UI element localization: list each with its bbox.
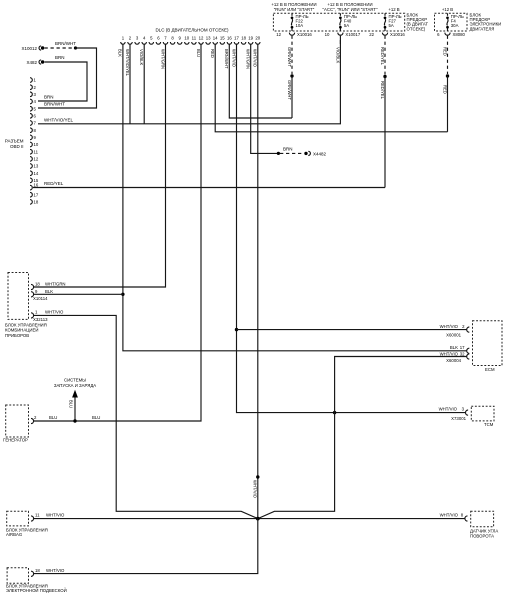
svg-text:BLK: BLK <box>450 345 458 350</box>
svg-text:AIRBAG: AIRBAG <box>6 532 23 537</box>
svg-text:X73001: X73001 <box>451 416 466 421</box>
svg-text:WHT/VIO: WHT/VIO <box>46 568 65 573</box>
svg-text:BRN: BRN <box>55 55 65 60</box>
airbag control unit box <box>6 511 48 537</box>
svg-text:30A: 30A <box>451 23 459 28</box>
OBD II pin 10 <box>30 142 32 147</box>
TCM box <box>471 406 494 427</box>
svg-text:WHT/VIO: WHT/VIO <box>231 49 236 68</box>
svg-text:VIO/BLK: VIO/BLK <box>139 49 144 65</box>
svg-text:WHT/VIO: WHT/VIO <box>440 324 459 329</box>
svg-text:X10017: X10017 <box>345 32 360 37</box>
svg-text:ЭЛЕКТРОННОЙ ПОДВЕСКОЙ: ЭЛЕКТРОННОЙ ПОДВЕСКОЙ <box>6 588 67 593</box>
svg-text:17: 17 <box>234 35 239 40</box>
DLC pin 3 <box>135 42 139 44</box>
OBD II pin 6 <box>30 114 32 119</box>
svg-text:WHT/GRN: WHT/GRN <box>160 49 165 69</box>
svg-text:16: 16 <box>227 35 232 40</box>
steering angle sensor box <box>470 511 498 538</box>
steering angle sensor pin 8 <box>440 513 468 522</box>
ECM pin 17 BLK <box>450 345 469 353</box>
fuse box ЭЛЕКТРОНИКИ ДВИГАТЕЛЯ <box>435 12 502 31</box>
svg-text:20: 20 <box>255 35 260 40</box>
svg-text:+12 В: +12 В <box>388 7 399 12</box>
svg-text:15: 15 <box>220 35 225 40</box>
svg-text:WHT/VIO: WHT/VIO <box>46 513 65 518</box>
svg-text:11: 11 <box>35 513 40 518</box>
DLC pin 6 <box>156 42 160 44</box>
DLC pin 12 <box>199 42 203 44</box>
svg-text:+12 В: +12 В <box>442 7 453 12</box>
svg-text:OBD II: OBD II <box>10 144 24 149</box>
svg-text:WHT/VIO: WHT/VIO <box>253 49 258 68</box>
svg-text:X4482: X4482 <box>313 151 327 156</box>
fuse F22 10A <box>291 13 309 31</box>
wire WHT/VIO DLC pin 16 to TCM pin 3 <box>231 44 465 412</box>
svg-text:X10016: X10016 <box>390 32 405 37</box>
svg-text:WHT/VIO: WHT/VIO <box>252 480 257 499</box>
svg-text:10: 10 <box>184 35 189 40</box>
svg-text:BRN: BRN <box>283 146 293 151</box>
wire BRN X482 to OBD pin 4 <box>38 62 87 101</box>
wire WHT/VIO/YEL DLC pin 2 <box>125 44 130 124</box>
svg-text:10: 10 <box>325 32 330 37</box>
wire VIO/BLK from fuse F40 <box>336 36 341 64</box>
OBD II pin 3 <box>30 92 32 97</box>
OBD II pin 4 <box>30 99 32 104</box>
svg-text:X60004: X60004 <box>446 358 461 363</box>
svg-text:19: 19 <box>248 35 253 40</box>
OBD II pin 7 <box>30 121 32 126</box>
DLC pin 2 <box>128 42 132 44</box>
+12V RUN/START header F22 <box>271 2 316 12</box>
pin 12 connector X10016 <box>276 32 312 37</box>
connector OBD II (РАЗЪЕМ OBD II) <box>5 78 39 205</box>
svg-text:18: 18 <box>241 35 246 40</box>
wire RED/YEL OBD pin 16 to fuse F27 <box>33 181 385 188</box>
svg-text:BLU: BLU <box>196 49 201 57</box>
OBD II pin 17 <box>30 192 32 197</box>
svg-text:WHT/VIO: WHT/VIO <box>440 351 459 356</box>
splice dot X4482 branch <box>277 152 280 155</box>
svg-text:13: 13 <box>34 164 39 169</box>
svg-text:16: 16 <box>34 183 39 188</box>
svg-text:BRN/WHT: BRN/WHT <box>224 49 229 69</box>
svg-text:VIO/BLK: VIO/BLK <box>336 47 341 63</box>
wire WHT/VIO airbag pin 11 to steering angle sensor pin 8 <box>34 518 465 520</box>
DLC pin 20 <box>256 42 260 44</box>
OBD II pin 14 <box>30 171 32 176</box>
wire BLU DLC pin 12 to generator <box>34 44 201 421</box>
OBD II pin 8 <box>30 128 32 133</box>
svg-text:BLU: BLU <box>92 415 100 420</box>
svg-text:ECM: ECM <box>485 367 495 372</box>
svg-text:11: 11 <box>192 35 197 40</box>
DLC pin 14 <box>213 42 217 44</box>
svg-text:WHT/VIO/YEL: WHT/VIO/YEL <box>125 49 130 77</box>
wire WHT/VIO suspension pin 18 to main junction <box>34 519 258 574</box>
wire BLK cluster pin 9 to junction <box>34 293 123 295</box>
svg-text:DLC (В ДВИГАТЕЛЬНОМ ОТСЕКЕ): DLC (В ДВИГАТЕЛЬНОМ ОТСЕКЕ) <box>155 28 229 33</box>
svg-text:22: 22 <box>369 32 374 37</box>
svg-text:WHT/GRN: WHT/GRN <box>246 49 251 69</box>
svg-text:BLU: BLU <box>49 415 57 420</box>
svg-text:14: 14 <box>213 35 218 40</box>
svg-text:ДВИГАТЕЛЯ: ДВИГАТЕЛЯ <box>470 26 495 31</box>
OBD II pin 13 <box>30 164 32 169</box>
wire WHT/VIO cluster pin 1 to main junction <box>34 315 258 518</box>
svg-text:RED/YEL: RED/YEL <box>44 181 64 186</box>
splice arrow to starting and charging systems <box>54 377 96 422</box>
OBD II pin 11 <box>30 149 32 154</box>
wire WHT/GRN DLC pin 18 to X4482 <box>246 44 278 153</box>
svg-text:WHT/VIO/YEL: WHT/VIO/YEL <box>44 117 74 122</box>
svg-text:12: 12 <box>199 35 204 40</box>
svg-text:10: 10 <box>34 142 39 147</box>
fuse box (В ДВИГАТ ОТСЕКЕ) <box>273 12 428 31</box>
pin 6 connector X4000 <box>437 32 465 37</box>
suspension pin 18 <box>31 568 65 577</box>
DLC pin 11 <box>192 42 196 44</box>
svg-text:СИСТЕМЫ: СИСТЕМЫ <box>64 377 86 382</box>
svg-text:X10114: X10114 <box>33 296 48 301</box>
DLC pin 18 <box>241 42 245 44</box>
wire RED / RED/YEL from fuse F27 to OBD pin 16 <box>380 36 386 188</box>
generator pin 2 <box>31 415 100 424</box>
wire WHT/VIO DLC pin 19 to main junction <box>252 44 259 518</box>
OBD II pin 1 <box>30 78 32 83</box>
svg-text:BRN/WHT: BRN/WHT <box>55 41 76 46</box>
svg-text:X8080: X8080 <box>453 32 466 37</box>
OBD II pin 5 <box>30 106 32 111</box>
svg-text:13: 13 <box>206 35 211 40</box>
wire WHT/VIO ECM pin 32 to main junction <box>258 357 467 519</box>
cluster pin 9 BLK connector X10114 <box>31 289 53 301</box>
svg-text:BRN/WHT: BRN/WHT <box>44 102 65 107</box>
svg-text:14: 14 <box>34 171 39 176</box>
svg-text:18: 18 <box>34 200 39 205</box>
svg-text:ПОВОРОТА: ПОВОРОТА <box>470 534 494 539</box>
DLC pin 15 <box>220 42 224 44</box>
fuse F40 5A <box>339 13 357 31</box>
wire BRN/WHT X10012 to OBD pin 5 <box>38 48 97 108</box>
svg-text:BLU: BLU <box>68 400 73 408</box>
svg-text:КОМБИНАЦИЕЙ: КОМБИНАЦИЕЙ <box>5 328 38 333</box>
wire GRN / GRN/WHT from fuse F22 to DLC pin 15 <box>287 36 293 118</box>
svg-text:X60001: X60001 <box>446 332 461 337</box>
generator box <box>3 405 29 443</box>
svg-text:10A: 10A <box>296 23 304 28</box>
DLC pin 7 <box>163 42 167 44</box>
svg-text:5A: 5A <box>389 23 394 28</box>
svg-text:"RUN" ИЛИ "START": "RUN" ИЛИ "START" <box>274 7 315 12</box>
wire RED from fuse F4 to DLC pin 14 <box>443 36 449 132</box>
wire BLK DLC pin 1 to ECM pin 17 <box>118 44 467 351</box>
connector X10012 <box>21 41 77 51</box>
svg-text:18: 18 <box>35 568 40 573</box>
fuse F4 30A <box>446 13 464 31</box>
OBD II pin 9 <box>30 135 32 140</box>
OBD II pin 18 <box>30 200 32 205</box>
svg-text:WHT/VIO: WHT/VIO <box>45 310 64 315</box>
svg-text:WHT/VIO: WHT/VIO <box>440 513 459 518</box>
svg-text:18: 18 <box>35 281 40 286</box>
DLC pin 17 <box>234 42 238 44</box>
svg-text:5A: 5A <box>344 23 349 28</box>
+12V ACC/RUN/START header F40 <box>323 2 378 12</box>
DLC pin 4 <box>142 42 146 44</box>
instrument cluster control unit box <box>5 273 47 338</box>
ECM pin 2 connector X60001 <box>440 324 470 337</box>
svg-text:RED: RED <box>210 49 215 58</box>
airbag pin 11 <box>31 513 65 522</box>
svg-text:ОТСЕКЕ): ОТСЕКЕ) <box>407 26 426 31</box>
pin 10 connector X10017 <box>325 32 361 37</box>
cluster pin 18 WHT/GRN <box>31 281 66 289</box>
svg-text:BRN: BRN <box>44 95 54 100</box>
wire VIO/BLK DLC pin 4 <box>139 44 144 124</box>
svg-text:17: 17 <box>34 192 39 197</box>
svg-text:WHT/VIO: WHT/VIO <box>439 407 458 412</box>
OBD II pin 16 <box>30 185 32 190</box>
svg-text:32: 32 <box>460 351 465 356</box>
DLC pin 19 <box>249 42 253 44</box>
svg-text:BLK: BLK <box>118 49 123 57</box>
cluster pin 1 WHT/VIO connector X32113 <box>31 310 64 322</box>
svg-text:X10016: X10016 <box>297 32 312 37</box>
junction dot TCM line and ECM pin 32 line <box>333 411 336 414</box>
OBD II pin 2 <box>30 85 32 90</box>
wire WHT/VIO/YEL OBD pin 7 to fuse F40 <box>38 40 340 124</box>
svg-text:11: 11 <box>34 149 39 154</box>
main junction dot WHT/VIO bus <box>256 517 260 521</box>
svg-text:12: 12 <box>276 32 281 37</box>
svg-text:X482: X482 <box>26 60 37 65</box>
wire WHT/GRN DLC pin 7 to cluster pin 18 <box>34 44 166 287</box>
ECM pin 32 connector X60004 <box>440 351 470 362</box>
svg-text:12: 12 <box>34 157 39 162</box>
svg-text:X32113: X32113 <box>33 317 48 322</box>
svg-text:ЗАПУСКА И ЗАРЯДА: ЗАПУСКА И ЗАРЯДА <box>54 383 96 388</box>
fuse F27 5A <box>384 13 402 31</box>
DLC pin 5 <box>149 42 153 44</box>
DLC pin 9 <box>178 42 182 44</box>
svg-text:ГЕНЕРАТОР: ГЕНЕРАТОР <box>3 438 28 443</box>
ECM box <box>473 321 503 372</box>
connector X4482 <box>280 146 327 156</box>
svg-text:РАЗЪЕМ: РАЗЪЕМ <box>5 139 24 144</box>
junction dot ECM pin 2 tap <box>235 328 238 331</box>
electronic suspension control unit box <box>6 568 67 593</box>
DLC pin 13 <box>206 42 210 44</box>
svg-text:WHT/GRN: WHT/GRN <box>45 281 66 286</box>
DLC pin 10 <box>185 42 189 44</box>
svg-text:GRN/WHT: GRN/WHT <box>287 47 292 67</box>
wire WHT/VIO to ECM pin 2 <box>237 329 467 331</box>
DLC pin 16 <box>227 42 231 44</box>
OBD II pin 15 <box>30 178 32 183</box>
pin 22 connector X10016 <box>369 32 405 37</box>
DLC pin 1 <box>121 42 125 44</box>
wire GRN/WHT DLC pin 15 to fuse F22 <box>224 44 292 118</box>
svg-text:ПРИБОРОВ: ПРИБОРОВ <box>5 333 29 338</box>
DLC pin 8 <box>170 42 174 44</box>
connector X482 <box>26 55 64 65</box>
svg-text:"ACC", "RUN" ИЛИ "START": "ACC", "RUN" ИЛИ "START" <box>323 7 378 12</box>
svg-text:BLK: BLK <box>45 289 53 294</box>
svg-text:17: 17 <box>460 345 465 350</box>
svg-text:RED/YEL: RED/YEL <box>380 47 385 66</box>
TCM pin 3 connector X73001 <box>439 407 468 421</box>
svg-text:TCM: TCM <box>484 422 494 427</box>
OBD II pin 12 <box>30 157 32 162</box>
wire RED DLC pin 14 to fuse F4 <box>210 44 448 132</box>
svg-text:X10012: X10012 <box>21 46 37 51</box>
svg-text:RED: RED <box>443 47 448 56</box>
